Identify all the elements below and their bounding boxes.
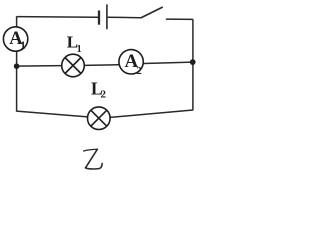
svg-text:2: 2	[136, 65, 142, 77]
svg-text:1: 1	[77, 44, 82, 55]
svg-text:2: 2	[101, 89, 107, 101]
svg-text:1: 1	[20, 39, 26, 51]
